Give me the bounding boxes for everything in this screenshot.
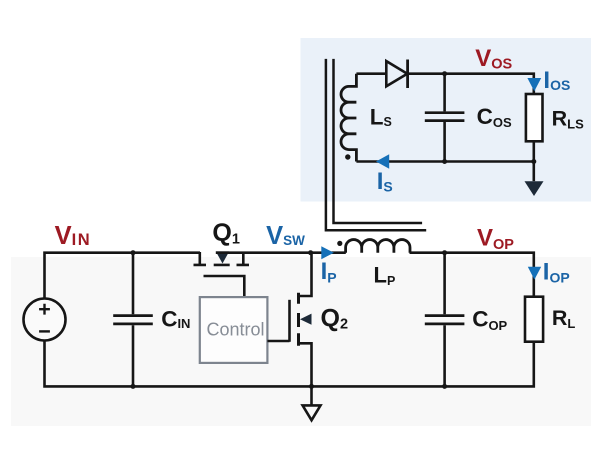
capacitor C_OP: [425, 253, 465, 387]
svg-text:Control: Control: [207, 319, 265, 339]
transistor Q2 (NMOS): [290, 253, 312, 387]
arrow I_OS: [527, 78, 541, 91]
wire: control output to Q2 gate: [267, 340, 289, 343]
capacitor C_IN: [113, 253, 153, 387]
control block: [200, 297, 268, 363]
node: R_LS bottom junction: [531, 159, 536, 164]
voltage source V1: [24, 299, 66, 341]
wire: source bottom lead and ground rail: [45, 341, 534, 387]
wire: LS top to diode anode: [356, 72, 386, 75]
node: C_IN top junction: [131, 250, 136, 255]
resistor R_L: [525, 297, 543, 342]
diode D1: [386, 60, 407, 89]
wire: Lp to V_OP rail, down to R_L: [410, 253, 534, 298]
secondary circuit background panel: [301, 38, 592, 202]
inductor L_P coil: [346, 240, 410, 253]
phase dot of L_P: [337, 241, 342, 246]
wire: secondary ground rail: [356, 141, 533, 161]
primary ground: [303, 386, 321, 420]
primary circuit background panel: [11, 257, 591, 426]
inductor LS coil with leads: [341, 74, 356, 162]
transistor Q1 (PMOS): [194, 251, 250, 297]
capacitor C_OS: [425, 74, 465, 162]
phase dot of LS: [345, 154, 350, 159]
node: V_SW junction: [308, 250, 313, 255]
node: V_OS / C_OS junction: [442, 71, 447, 76]
arrow I_P: [321, 246, 334, 259]
node: V_OP junction: [442, 250, 447, 255]
arrow I_OP: [528, 267, 541, 280]
node: C_OS bottom junction: [442, 159, 447, 164]
wire: Q1 drain to V_SW node and Lp: [216, 251, 346, 254]
arrow I_S: [376, 154, 389, 168]
node: C_IN bottom junction: [131, 384, 136, 389]
secondary ground: [525, 162, 544, 197]
wire: diode cathode to V_OS rail, down to R_LS: [408, 74, 534, 95]
resistor R_LS: [526, 94, 543, 141]
node: Q2 source / ground junction: [309, 384, 314, 389]
transformer core: [326, 59, 426, 230]
wire: source to input rail to Q1 source: [45, 253, 201, 299]
node: C_OP bottom junction: [442, 384, 447, 389]
